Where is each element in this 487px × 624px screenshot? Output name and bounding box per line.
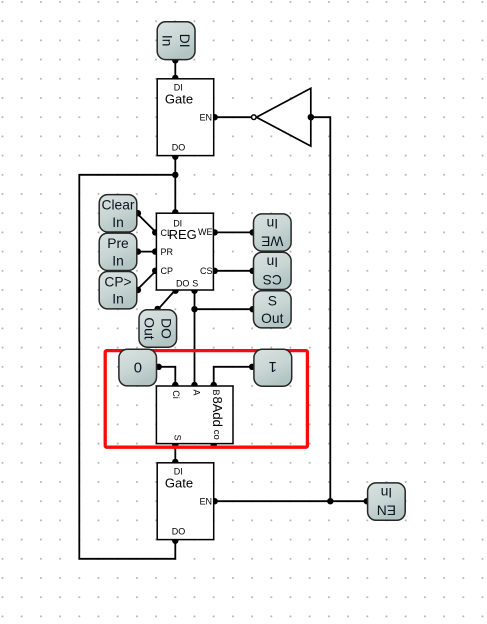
input port CS In (rotated 180): [254, 252, 292, 289]
svg-text:PR: PR: [161, 247, 174, 257]
svg-text:co: co: [211, 430, 222, 440]
svg-text:DO: DO: [159, 318, 174, 339]
svg-text:A: A: [192, 390, 202, 396]
svg-text:In: In: [267, 216, 279, 231]
pin adder Co (unconnected): [211, 441, 217, 447]
wire inverter input down to EN net: [308, 114, 331, 501]
wire REG WE to WE In port: [212, 229, 256, 235]
svg-text:Ci: Ci: [171, 390, 181, 399]
gate U2 (driver Gate, bottom): [157, 463, 214, 540]
wire constant 0 port to adder Ci: [156, 364, 179, 389]
svg-text:DO: DO: [172, 142, 186, 152]
wire Gate U1 pin EN to inverter output bubble: [212, 114, 252, 120]
svg-text:In: In: [112, 253, 124, 268]
adder U5 8Add (rotated 90): [156, 386, 233, 444]
wire adder S to Gate U2 DI: [172, 442, 178, 466]
register U4 REG: [156, 213, 213, 290]
svg-text:Pre: Pre: [107, 236, 129, 251]
svg-text:8Add: 8Add: [210, 397, 225, 427]
node DO-bus junction: [172, 172, 178, 178]
inverter U3 (NOT gate, facing left): [252, 88, 314, 146]
constant 1 port (rotated 180): [254, 349, 292, 386]
svg-text:In: In: [112, 215, 124, 230]
wire Gate U2 EN to EN In port: [212, 498, 370, 504]
svg-text:S: S: [173, 435, 183, 441]
wire REG S down to adder A: [191, 288, 197, 389]
output port DO Out (rotated 90): [139, 310, 177, 347]
svg-text:In: In: [381, 485, 393, 500]
svg-text:DO: DO: [172, 526, 186, 536]
input port EN In (rotated 180): [368, 483, 406, 520]
svg-text:Gate: Gate: [165, 475, 193, 490]
selection highlight rectangle: [105, 351, 307, 448]
svg-text:EN: EN: [199, 112, 212, 122]
gate U1 (driver Gate, top): [157, 79, 214, 156]
svg-text:CP>: CP>: [104, 274, 131, 289]
svg-text:CP: CP: [161, 266, 174, 276]
node EN junction: [327, 498, 333, 504]
svg-text:In: In: [267, 254, 279, 269]
svg-text:CS: CS: [200, 266, 213, 276]
input port Pre In: [99, 233, 137, 270]
svg-text:In: In: [112, 292, 124, 307]
svg-text:S: S: [268, 293, 277, 308]
svg-text:Out: Out: [261, 311, 283, 326]
svg-text:CL: CL: [161, 228, 173, 238]
svg-text:REG: REG: [169, 227, 197, 242]
constant 0 port: [119, 349, 157, 386]
output port S Out: [254, 291, 292, 328]
svg-text:S: S: [192, 278, 198, 288]
svg-text:0: 0: [134, 361, 142, 377]
svg-text:Out: Out: [141, 317, 156, 339]
svg-text:Clear: Clear: [102, 197, 135, 212]
wire DI In port to Gate U1 pin DI: [172, 57, 178, 81]
wire S junction to S Out port: [195, 306, 256, 312]
wire REG DO to DO Out port: [154, 288, 178, 313]
wire REG CS to CS In port: [212, 268, 256, 274]
svg-text:In: In: [160, 35, 175, 47]
svg-text:DI: DI: [177, 34, 192, 48]
input port DI In (rotated 90): [157, 22, 195, 60]
node S junction: [191, 306, 197, 312]
svg-text:WE: WE: [261, 233, 283, 248]
input port WE In (rotated 180): [254, 214, 292, 251]
wire Gate U1 DO to REG DI: [172, 154, 178, 216]
svg-text:DO: DO: [176, 278, 190, 288]
svg-text:EN: EN: [199, 496, 212, 506]
svg-text:EN: EN: [377, 503, 396, 518]
input port CP In: [99, 272, 137, 309]
svg-text:1: 1: [269, 358, 277, 374]
svg-text:B: B: [211, 390, 221, 396]
svg-text:CS: CS: [263, 272, 282, 287]
svg-text:WE: WE: [198, 227, 213, 237]
wire CP In port to REG CP: [135, 268, 159, 294]
wire Pre In port to REG PR: [135, 248, 159, 254]
wire constant 1 port to adder B: [211, 364, 256, 389]
wire DO bus left loop to Gate U2 DO: [79, 175, 178, 559]
svg-text:Gate: Gate: [165, 91, 193, 106]
input port Clear In: [99, 195, 137, 232]
wire Clear In port to REG CL: [135, 210, 159, 236]
